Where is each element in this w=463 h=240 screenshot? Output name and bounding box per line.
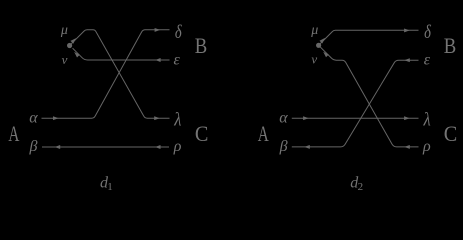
node dot mu-nu d1 [67,43,72,48]
wire alpha to delta [42,30,170,118]
wire epsilon to nu [73,48,170,60]
arrowhead into lambda [154,116,160,120]
svg-text:1: 1 [107,181,113,193]
svg-text:β: β [29,138,38,155]
svg-text:A: A [8,121,19,146]
arrowhead leaving dot (mu) d2 [320,38,326,44]
arrowhead at alpha start d2 [303,116,309,120]
arrowhead into dot (nu) d2 [323,52,329,58]
svg-text:ε: ε [424,52,431,69]
arrowhead into dot (nu) [74,52,80,58]
wire rho to beta [42,146,169,148]
svg-text:ν: ν [311,52,317,67]
svg-text:α: α [29,110,38,127]
arrowhead at alpha start [53,116,59,120]
svg-text:λ: λ [173,111,181,131]
wire epsilon to beta [292,60,419,147]
svg-text:μ: μ [60,23,68,38]
svg-text:μ: μ [310,23,318,38]
arrowhead at rho start d2 [404,145,410,149]
svg-text:B: B [195,33,208,58]
svg-text:δ: δ [424,23,431,43]
arrowhead at epsilon start [155,58,160,62]
arrowhead into delta d2 [404,28,410,32]
svg-text:ν: ν [62,52,68,67]
svg-text:ρ: ρ [173,138,182,155]
svg-text:C: C [444,121,458,146]
svg-text:ρ: ρ [422,138,431,155]
arrowhead at rho start [155,145,161,149]
svg-text:β: β [279,138,288,155]
arrowhead at epsilon start d2 [404,58,410,62]
svg-text:B: B [444,33,457,58]
arrowhead into beta d2 [304,145,310,149]
arrowhead into lambda d2 [404,116,410,120]
svg-text:ε: ε [174,52,181,69]
svg-text:λ: λ [423,111,431,131]
node dot mu-nu d2 [316,43,321,48]
svg-text:α: α [279,110,288,127]
arrowhead into beta [55,145,61,149]
wire rho to nu [320,47,418,147]
wire mu to delta [320,30,419,44]
svg-text:A: A [258,121,269,146]
svg-text:2: 2 [358,181,364,193]
wire mu to lambda [71,30,170,118]
svg-text:δ: δ [175,23,182,43]
arrowhead leaving dot (mu) [71,38,77,44]
arrowhead into delta [155,28,161,32]
wire alpha to lambda [292,117,419,119]
svg-text:C: C [195,121,209,146]
